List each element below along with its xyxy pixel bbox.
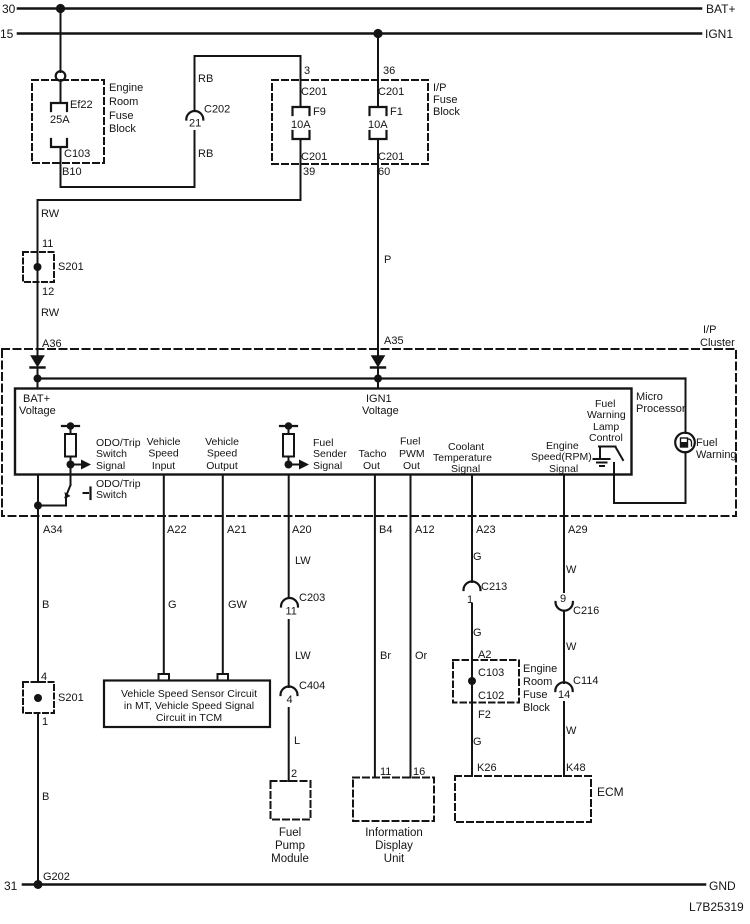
svg-text:Cluster: Cluster	[700, 337, 735, 349]
svg-text:C404: C404	[299, 680, 325, 692]
svg-text:Circuit in TCM: Circuit in TCM	[156, 712, 222, 724]
svg-text:Input: Input	[152, 460, 175, 472]
label Fuel Warning Lamp Control	[587, 398, 626, 444]
label Tacho Out	[359, 448, 387, 472]
svg-text:Engine: Engine	[109, 82, 143, 94]
fuse F1 10A	[370, 107, 387, 139]
wire P from F1 to A35	[377, 139, 379, 356]
svg-text:Block: Block	[109, 123, 136, 135]
wire A23 / G	[471, 475, 473, 583]
svg-text:G202: G202	[43, 871, 70, 883]
fuel pump module box	[271, 781, 311, 820]
svg-text:39: 39	[303, 166, 315, 178]
svg-text:LW: LW	[295, 555, 311, 567]
svg-text:Out: Out	[403, 460, 420, 472]
svg-text:9: 9	[560, 593, 566, 605]
label Fuel PWM Out	[399, 436, 425, 473]
fuse F9 10A	[293, 107, 310, 139]
internal BAT+ rail	[34, 375, 686, 383]
svg-text:Speed(RPM): Speed(RPM)	[531, 451, 592, 463]
svg-text:Micro: Micro	[636, 391, 663, 403]
svg-text:C203: C203	[299, 592, 325, 604]
svg-text:F9: F9	[313, 106, 326, 118]
wire A20 / LW	[288, 475, 290, 599]
svg-text:Warning: Warning	[587, 409, 626, 421]
svg-text:4: 4	[287, 694, 293, 706]
wire IGN1 to F1	[377, 34, 379, 108]
connector C203 pin 11	[281, 598, 298, 607]
svg-text:Fuse: Fuse	[433, 94, 457, 106]
svg-text:C213: C213	[481, 581, 507, 593]
engine room fuse block (lower) dashed box	[453, 660, 519, 703]
connector C404 pin 4	[281, 687, 298, 696]
svg-text:A21: A21	[227, 524, 247, 536]
svg-text:A29: A29	[568, 524, 588, 536]
vehicle speed sensor box	[104, 681, 270, 728]
wire A12 / Or	[410, 475, 412, 778]
splice S201 upper	[23, 252, 54, 282]
svg-text:I/P: I/P	[433, 82, 446, 94]
connector C213 pin 1	[464, 582, 481, 591]
svg-text:10A: 10A	[368, 119, 388, 131]
svg-text:Switch: Switch	[96, 489, 127, 501]
fuel warning lamp control switch	[599, 447, 623, 504]
svg-text:Sender: Sender	[313, 448, 347, 460]
wire F2 G K26	[471, 660, 473, 776]
svg-text:A34: A34	[43, 524, 63, 536]
svg-text:C201: C201	[378, 86, 404, 98]
svg-text:IGN1: IGN1	[705, 27, 733, 41]
svg-text:Signal: Signal	[313, 460, 342, 472]
svg-text:14: 14	[558, 689, 570, 701]
svg-text:W: W	[566, 725, 577, 737]
label Vehicle Speed Input	[147, 436, 181, 472]
svg-text:Fuse: Fuse	[109, 110, 133, 122]
svg-text:G: G	[168, 599, 177, 611]
svg-text:Or: Or	[415, 650, 428, 662]
svg-text:A20: A20	[292, 524, 312, 536]
svg-text:Engine: Engine	[523, 663, 557, 675]
ECM box	[455, 776, 591, 822]
wire lamp circuit	[614, 379, 686, 504]
svg-text:BAT+: BAT+	[23, 393, 50, 405]
svg-text:C216: C216	[573, 605, 599, 617]
svg-text:Room: Room	[109, 96, 138, 108]
svg-text:Br: Br	[380, 650, 391, 662]
wire B to G202	[37, 713, 39, 885]
svg-text:RB: RB	[198, 148, 213, 160]
svg-text:Switch: Switch	[96, 448, 127, 460]
svg-text:C202: C202	[204, 104, 230, 116]
svg-text:K48: K48	[566, 762, 586, 774]
svg-text:G: G	[473, 627, 482, 639]
svg-text:Block: Block	[433, 106, 460, 118]
svg-text:RW: RW	[41, 307, 60, 319]
svg-text:Fuel: Fuel	[279, 827, 301, 839]
svg-text:Output: Output	[206, 460, 238, 472]
arrow fuel sender signal	[289, 460, 310, 470]
label IGN1 Voltage	[362, 393, 399, 417]
svg-text:in MT, Vehicle Speed Signal: in MT, Vehicle Speed Signal	[124, 700, 254, 712]
svg-text:ECM: ECM	[597, 785, 624, 799]
svg-text:31: 31	[4, 879, 18, 893]
svg-text:36: 36	[383, 65, 395, 77]
label Engine Room Fuse Block (lower)	[523, 663, 557, 714]
label Micro Processor	[636, 391, 686, 415]
engine room fuse block (top) dashed box	[32, 80, 104, 163]
wire bus30 to Ef22	[60, 9, 62, 73]
wire LW 2	[288, 620, 290, 687]
svg-text:I/P: I/P	[703, 324, 716, 336]
svg-text:Fuel: Fuel	[696, 437, 717, 449]
svg-text:A22: A22	[167, 524, 187, 536]
svg-text:K26: K26	[477, 762, 497, 774]
svg-text:1: 1	[42, 716, 48, 728]
svg-text:C201: C201	[378, 151, 404, 163]
svg-text:11: 11	[380, 766, 391, 778]
svg-text:Voltage: Voltage	[362, 405, 399, 417]
svg-text:Fuel: Fuel	[400, 436, 420, 448]
svg-text:Fuse: Fuse	[523, 689, 547, 701]
diode at A35	[371, 356, 385, 388]
svg-text:F1: F1	[390, 106, 403, 118]
bus 31 GND	[23, 880, 705, 889]
micro processor box	[15, 389, 632, 475]
svg-text:Vehicle: Vehicle	[205, 436, 239, 448]
svg-text:IGN1: IGN1	[366, 393, 392, 405]
fuel warning lamp	[675, 433, 695, 453]
svg-text:Display: Display	[375, 840, 413, 852]
wire B4 / Br	[374, 475, 376, 778]
svg-text:Tacho: Tacho	[359, 448, 387, 460]
wire G to A2	[471, 604, 473, 660]
arrow ODO/Trip switch signal	[71, 460, 92, 470]
wire W K48	[563, 702, 565, 776]
svg-text:16: 16	[413, 766, 425, 778]
svg-text:G: G	[473, 551, 482, 563]
wire A34 down	[37, 475, 39, 683]
svg-text:21: 21	[189, 118, 201, 130]
wire L	[288, 708, 290, 781]
svg-text:Signal: Signal	[549, 463, 578, 475]
svg-text:Speed: Speed	[148, 448, 179, 460]
svg-text:A35: A35	[384, 335, 404, 347]
label Engine Room Fuse Block	[109, 82, 143, 135]
label I/P Fuse Block	[433, 82, 460, 118]
svg-text:B: B	[42, 791, 49, 803]
wire A29 / W	[563, 475, 565, 593]
I/P cluster dashed box	[2, 349, 736, 516]
diode at A36	[31, 356, 45, 388]
svg-text:W: W	[566, 641, 577, 653]
connector ring at fuse block entry	[56, 71, 66, 81]
svg-text:Block: Block	[523, 702, 550, 714]
svg-text:L7B25319: L7B25319	[689, 900, 744, 914]
svg-text:BAT+: BAT+	[706, 2, 735, 16]
splice S201 lower	[23, 682, 54, 713]
svg-text:Unit: Unit	[384, 853, 405, 865]
svg-text:25A: 25A	[50, 114, 70, 126]
svg-text:C201: C201	[301, 151, 327, 163]
connector C202 pin 21	[186, 111, 203, 120]
bus 15 IGN1	[18, 29, 701, 38]
resistor (ODO pull-up)	[62, 422, 79, 468]
svg-text:GW: GW	[228, 599, 248, 611]
svg-text:Pump: Pump	[275, 840, 305, 852]
svg-text:S201: S201	[58, 692, 84, 704]
svg-text:RB: RB	[198, 73, 213, 85]
svg-text:F2: F2	[478, 709, 491, 721]
wire A21	[222, 475, 224, 675]
svg-text:B10: B10	[62, 166, 82, 178]
svg-text:P: P	[384, 254, 391, 266]
bus 30 BAT+	[18, 4, 701, 13]
svg-text:S201: S201	[58, 261, 84, 273]
svg-text:Information: Information	[365, 827, 423, 839]
resistor (fuel sender pull-up)	[280, 422, 297, 468]
I/P fuse block dashed box	[272, 80, 428, 164]
svg-text:G: G	[473, 736, 482, 748]
svg-text:Room: Room	[523, 676, 552, 688]
connector C114 pin 14	[555, 682, 572, 691]
svg-text:Warning: Warning	[696, 449, 737, 461]
svg-text:RW: RW	[41, 208, 60, 220]
label Engine Speed(RPM) Signal	[531, 440, 592, 475]
svg-text:Module: Module	[271, 853, 309, 865]
svg-text:Signal: Signal	[451, 463, 480, 475]
label Fuel Warning	[696, 437, 737, 461]
svg-text:12: 12	[42, 286, 54, 298]
svg-text:C103: C103	[478, 667, 504, 679]
svg-text:Ef22: Ef22	[70, 99, 93, 111]
svg-text:11: 11	[286, 606, 297, 618]
svg-text:W: W	[566, 564, 577, 576]
svg-text:C102: C102	[478, 690, 504, 702]
svg-text:B4: B4	[379, 524, 392, 536]
svg-text:15: 15	[0, 27, 14, 41]
svg-text:Out: Out	[363, 460, 380, 472]
svg-text:C103: C103	[64, 148, 90, 160]
label BAT+ Voltage	[19, 393, 56, 417]
svg-text:10A: 10A	[291, 119, 311, 131]
wire W	[563, 611, 565, 683]
wire F9 to S201 RW	[38, 139, 301, 356]
svg-text:C114: C114	[573, 675, 598, 687]
svg-text:Speed: Speed	[207, 448, 238, 460]
svg-text:A23: A23	[476, 524, 496, 536]
svg-text:3: 3	[304, 65, 310, 77]
ground (lamp control)	[594, 459, 610, 466]
svg-text:LW: LW	[295, 650, 311, 662]
svg-text:B: B	[42, 599, 49, 611]
wire A22	[163, 475, 165, 675]
wire RB from B10 to C202 to F9	[61, 56, 301, 187]
svg-text:Control: Control	[589, 432, 623, 444]
svg-text:Processor: Processor	[636, 403, 686, 415]
svg-text:Vehicle Speed Sensor Circuit: Vehicle Speed Sensor Circuit	[121, 688, 257, 700]
svg-text:Signal: Signal	[96, 460, 125, 472]
svg-text:Vehicle: Vehicle	[147, 436, 181, 448]
label Vehicle Speed Output	[205, 436, 239, 472]
svg-text:11: 11	[42, 238, 53, 250]
label Coolant Temperature Signal	[433, 441, 492, 475]
svg-text:Voltage: Voltage	[19, 405, 56, 417]
svg-text:A12: A12	[415, 524, 435, 536]
information display unit box	[353, 778, 434, 822]
svg-text:2: 2	[291, 768, 297, 780]
fuse Ef22 25A	[51, 80, 67, 187]
svg-text:GND: GND	[709, 879, 736, 893]
svg-text:60: 60	[378, 166, 390, 178]
ODO/Trip switch	[34, 465, 91, 510]
label I/P Cluster	[700, 324, 735, 349]
vehicle speed box pins	[159, 674, 170, 681]
svg-text:L: L	[294, 735, 300, 747]
svg-text:30: 30	[2, 2, 16, 16]
svg-text:PWM: PWM	[399, 448, 425, 460]
svg-text:C201: C201	[301, 86, 327, 98]
